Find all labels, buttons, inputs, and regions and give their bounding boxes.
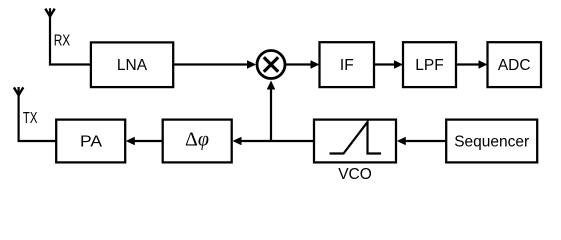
svg-text:Sequencer: Sequencer [454,134,529,151]
svg-text:LNA: LNA [117,57,148,74]
svg-text:RX: RX [54,33,71,50]
svg-text:PA: PA [80,134,103,151]
svg-text:ADC: ADC [498,57,531,74]
svg-text:LPF: LPF [415,57,443,74]
svg-text:TX: TX [23,110,38,127]
svg-text:VCO: VCO [338,166,372,183]
svg-text:IF: IF [340,57,354,74]
svg-text:Δφ: Δφ [185,128,209,150]
